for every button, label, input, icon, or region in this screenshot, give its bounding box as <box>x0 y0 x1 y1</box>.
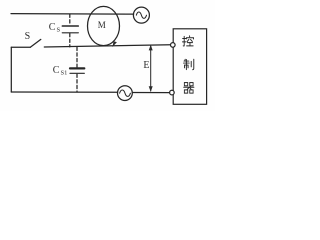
hanzi 器 <box>184 83 194 94</box>
node terminal 1 <box>171 43 176 48</box>
wire left vertical <box>10 47 12 92</box>
capacitor C_S plate 1 <box>62 25 78 27</box>
node terminal 2 <box>170 90 175 95</box>
motor U1 rotation arrowhead <box>112 41 117 47</box>
wire switch left stub <box>11 46 30 48</box>
wire middle rail <box>44 45 171 47</box>
capacitor C_S1 bottom lead (dashed) <box>76 74 78 92</box>
svg-text:C: C <box>53 65 60 76</box>
ac source G1 top circle <box>133 7 149 23</box>
wire top rail <box>11 13 134 16</box>
capacitor C_S bottom lead (dashed) <box>69 34 71 47</box>
controller box <box>173 29 206 105</box>
svg-text:M: M <box>98 20 106 30</box>
capacitor C_S1 top lead (dashed) <box>76 47 78 67</box>
voltage E arrow line <box>150 46 152 91</box>
wire bottom rail right <box>132 92 170 94</box>
voltage E arrowhead down <box>149 86 153 92</box>
ac source G2 sine <box>120 90 131 96</box>
voltage E arrowhead up <box>149 45 153 51</box>
capacitor C_S plate 2 <box>62 32 78 34</box>
svg-text:S1: S1 <box>61 70 68 77</box>
ac source G2 bottom circle <box>118 86 133 101</box>
svg-text:E: E <box>143 60 149 71</box>
ac source G1 sine <box>136 12 146 18</box>
wire bottom rail left <box>11 91 117 93</box>
capacitor C_S top lead (dashed) <box>69 14 71 25</box>
hanzi 制 <box>184 59 194 69</box>
svg-text:C: C <box>49 22 56 33</box>
motor U1 ellipse <box>88 6 120 45</box>
hanzi 控 <box>182 36 193 46</box>
svg-text:S: S <box>57 26 61 33</box>
switch S blade <box>30 39 41 47</box>
capacitor C_S1 plate 1 <box>70 67 84 69</box>
capacitor C_S1 plate 2 <box>70 72 84 74</box>
svg-text:S: S <box>25 31 31 42</box>
